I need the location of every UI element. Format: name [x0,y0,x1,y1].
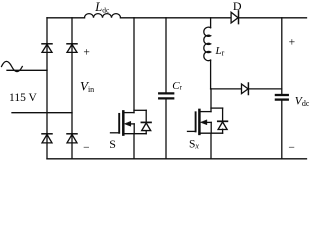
diode DSx body diode of Sx [218,108,228,133]
svg-text:+: + [83,46,90,58]
svg-text:S: S [109,137,116,151]
wire top rail left segment [47,17,85,19]
capacitor C_r [159,18,173,159]
svg-text:D: D [233,0,242,13]
svg-text:−: − [83,142,90,154]
svg-text:−: − [288,142,295,154]
wire Sx corner to body diode [211,107,223,109]
wire node to diode Dx and V_dc [211,88,282,90]
capacitor C_dc (output) [276,18,288,159]
wire AC terminal 2 [12,112,72,114]
wire bottom rail [47,158,307,160]
wire L_r top lead [210,18,212,28]
inductor L_dc [85,14,121,18]
diode D3 bridge lower-left [42,134,52,143]
wire S drain from top rail [133,18,135,113]
svg-text:115 V: 115 V [9,92,37,104]
wire Sx drain from node [210,89,212,112]
wire top rail right segment [121,17,307,19]
transistor Sx (MOSFET) [188,110,223,134]
diode D4 bridge lower-right [67,134,77,143]
diode D2 bridge upper-right [67,44,77,53]
inductor L_r [204,27,211,60]
transistor S (MOSFET) [111,111,147,134]
svg-text:+: + [289,36,296,48]
wire S source to bottom rail [133,134,135,159]
wire L_r bottom lead to node [210,60,212,89]
wire bridge right leg [71,18,73,159]
wire bridge left leg [46,18,48,159]
diode Dx (to output) [242,83,249,95]
diode D (top rail) [231,11,238,24]
diode D1 bridge upper-left [42,44,52,53]
diode DS body diode of S [141,110,151,133]
wire S drain to body-diode corner [134,109,146,111]
wire Sx source to bottom rail [210,133,212,159]
wire AC terminal 1 [7,69,47,71]
AC source sine [2,61,23,71]
